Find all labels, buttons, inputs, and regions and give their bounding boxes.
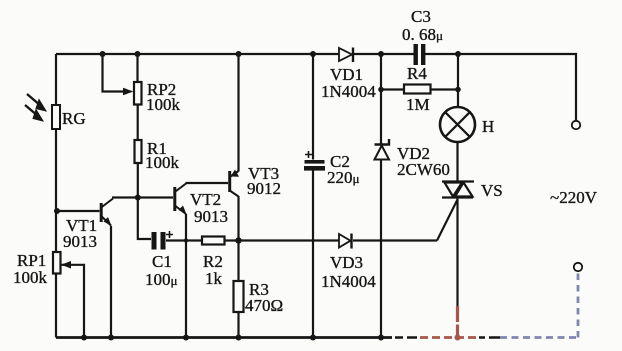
svg-text:100k: 100k: [145, 153, 180, 172]
transistor VT1: [63, 199, 113, 252]
svg-text:100μ: 100μ: [145, 270, 178, 289]
svg-text:100k: 100k: [146, 95, 181, 114]
svg-text:0. 68μ: 0. 68μ: [402, 25, 443, 44]
photoresistor RG: [52, 105, 86, 129]
resistor R2: [202, 237, 225, 289]
junction top rail C2: [310, 51, 316, 57]
junction top rail VT3 emitter: [236, 51, 242, 57]
wire VT1 collector node to VT2 base: [112, 196, 173, 198]
svg-text:VD3: VD3: [330, 253, 363, 272]
wire bottom rail: [56, 336, 392, 339]
svg-text:1N4004: 1N4004: [321, 272, 376, 291]
wire C2 vertical: [312, 54, 314, 338]
wire triac down black part: [456, 198, 458, 308]
svg-text:H: H: [482, 117, 494, 136]
junction VT1 collector / R1 / C1 node: [135, 195, 141, 201]
transistor VT2: [175, 184, 228, 227]
svg-text:9012: 9012: [247, 179, 281, 198]
triac VS: [442, 181, 503, 200]
potentiometer RP2: [123, 80, 181, 114]
svg-text:2CW60: 2CW60: [397, 160, 450, 179]
svg-text:100k: 100k: [13, 268, 48, 287]
wire bottom rail dashes black: [395, 336, 500, 339]
junction VT3 collector / R2 / R3 node: [235, 237, 241, 243]
capacitor C2: [304, 151, 360, 187]
svg-text:R4: R4: [407, 64, 427, 83]
wire RP2-R1 chain: [138, 54, 152, 239]
capacitor C1: [145, 231, 178, 289]
top terminal: [572, 121, 580, 129]
junction R4 left: [378, 87, 384, 93]
wire bottom right vertical blue dashed: [577, 272, 580, 338]
wire VD2 vertical: [380, 54, 382, 338]
wire bottom rail blue dashed: [500, 336, 578, 339]
wire bottom rail red dashed: [420, 336, 478, 339]
wire lamp to triac: [456, 143, 458, 182]
junction R4 right: [455, 87, 461, 93]
lamp H: [440, 107, 494, 142]
svg-text:9013: 9013: [194, 207, 228, 226]
wire R4 branch: [381, 54, 458, 107]
wire left vertical: [55, 54, 57, 338]
diode VD3: [321, 234, 376, 292]
junction bottom rail RP1 wiper: [81, 335, 87, 341]
wire top rail mid: [354, 53, 414, 55]
resistor R3: [234, 280, 284, 315]
light arrows: [25, 94, 46, 121]
bottom terminal: [574, 263, 582, 271]
resistor R1: [135, 139, 180, 172]
junction top rail RP2 top: [135, 51, 141, 57]
svg-text:1M: 1M: [406, 95, 430, 114]
svg-text:220μ: 220μ: [327, 168, 360, 187]
junction bottom rail VD2 branch: [378, 335, 384, 341]
junction VT2 emitter crossing: [184, 238, 188, 242]
wire VT1 base: [57, 210, 100, 212]
red junction: [455, 335, 461, 341]
svg-text:VS: VS: [481, 181, 503, 200]
wire top rail right: [424, 54, 576, 121]
junction top rail lamp branch: [455, 51, 461, 57]
wire VT3 emitter up: [237, 54, 239, 172]
resistor R4: [404, 64, 431, 114]
svg-text:1N4004: 1N4004: [321, 82, 376, 101]
svg-text:~220V: ~220V: [550, 188, 598, 207]
svg-text:470Ω: 470Ω: [245, 296, 283, 315]
wire RP2 wiper feed: [103, 54, 127, 92]
wire RP1 wiper down: [63, 265, 84, 338]
wire VT3 collector down: [237, 196, 239, 338]
junction bottom rail C2: [310, 335, 316, 341]
potentiometer RP1: [13, 251, 71, 287]
junction top rail VD2 branch: [378, 51, 384, 57]
junction bottom rail R3: [236, 335, 242, 341]
diode VD1: [321, 48, 376, 102]
capacitor C3: [402, 7, 443, 65]
junction VT1 base node: [54, 208, 60, 214]
svg-text:RG: RG: [62, 109, 86, 128]
svg-text:C1: C1: [152, 252, 172, 271]
wire VT1 emitter down: [110, 226, 112, 338]
wire triac red lower: [456, 306, 459, 338]
transistor VT3: [230, 164, 281, 198]
svg-text:C3: C3: [411, 7, 431, 26]
junction bottom rail VT1 emitter: [108, 335, 114, 341]
wire C1 to R2 to gate line: [166, 239, 437, 241]
wire VT2 emitter down: [185, 214, 187, 338]
svg-text:9013: 9013: [63, 232, 97, 251]
junction bottom rail VT2 emitter: [183, 335, 189, 341]
wire top rail left: [56, 53, 339, 55]
wire gate diagonal to triac: [437, 200, 458, 241]
zener diode VD2: [375, 139, 450, 179]
svg-text:1k: 1k: [205, 269, 223, 288]
junction top rail RP2 feed: [100, 51, 106, 57]
wire VT2 collector to VT3 base: [186, 182, 229, 184]
